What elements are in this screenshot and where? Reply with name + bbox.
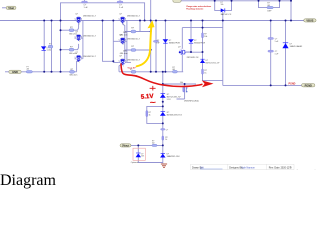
svg-text:PGND: PGND bbox=[289, 82, 296, 85]
svg-text:1k: 1k bbox=[149, 115, 151, 117]
capacitor C4 1uF (column x=270.7) bbox=[268, 38, 279, 43]
wire top net D y=0.8 bbox=[181, 0, 291, 2]
resistor R5 10k (column x=202.5) bbox=[202, 33, 208, 38]
wire vertical column x=44 bbox=[43, 21, 45, 72]
transistor Q4 (right stack top) bbox=[118, 14, 140, 26]
diode D3 SM4007 (column x=191, pointing down) bbox=[186, 20, 205, 54]
transistor Q1 (left stack top) bbox=[74, 14, 96, 26]
svg-text:Plus/charge detection: Plus/charge detection bbox=[186, 8, 203, 11]
resistor R10 0ohm (bottom row) bbox=[152, 141, 157, 147]
resistor R7 10k + sub part under red curve bbox=[180, 82, 199, 103]
svg-text:5Vout: 5Vout bbox=[122, 145, 129, 148]
net tag VBAT (top left pill) bbox=[2, 6, 16, 10]
svg-text:VBUS: VBUS bbox=[306, 20, 313, 23]
wire 2N7002 drain up and top link y=27.6 bbox=[182, 28, 223, 49]
svg-text:680 ohm: 680 ohm bbox=[70, 75, 78, 77]
wire rail A (main top horizontal net) bbox=[0, 20, 304, 22]
svg-text:DMG3415U-7: DMG3415U-7 bbox=[127, 16, 141, 18]
svg-text:1k: 1k bbox=[165, 139, 167, 141]
svg-text:Rev: Date:: Rev: Date: bbox=[269, 167, 281, 170]
wire vertical column x=165.4 (diode SM4007) bbox=[164, 21, 166, 72]
wire vertical cap column x=270.7 bbox=[270, 21, 272, 86]
wire vertical column x=156 (cap) bbox=[155, 21, 157, 72]
fuse F1 on rail2 bbox=[26, 67, 32, 73]
svg-text:1k: 1k bbox=[204, 73, 206, 75]
wire vertical column x=162.8 (5.1V zener chain down to ground) bbox=[162, 72, 164, 164]
svg-text:DMG3415U-7: DMG3415U-7 bbox=[83, 56, 97, 58]
svg-text:680 ohm: 680 ohm bbox=[69, 33, 77, 35]
net tag 5V (bottom left pill) bbox=[120, 144, 131, 148]
svg-text:Vbat: Vbat bbox=[8, 6, 14, 10]
transistor Q3 (left stack bottom) bbox=[74, 52, 96, 64]
svg-text:SM4007PLW: SM4007PLW bbox=[169, 43, 180, 45]
capacitor C5 1uF (column x=270.7) bbox=[268, 50, 279, 55]
net tag VBUS (right pill on rail A) bbox=[304, 19, 316, 23]
transistor U1 2N7002 bbox=[178, 47, 199, 59]
wire vertical to top edge at x=150.7 bbox=[150, 0, 152, 21]
svg-text:C?: C? bbox=[157, 40, 159, 42]
transistor Q5 (right stack middle) bbox=[118, 35, 140, 47]
svg-text:BAT54C-7-F: BAT54C-7-F bbox=[221, 13, 232, 16]
wire y=84 stub under red curve bbox=[163, 83, 196, 85]
svg-text:PGND: PGND bbox=[305, 84, 312, 87]
wire N3 row to column150 bbox=[127, 61, 131, 63]
svg-text:SMAZ5V1-13-F: SMAZ5V1-13-F bbox=[167, 155, 181, 158]
svg-text:R?: R? bbox=[49, 44, 51, 46]
net tag PGND (bottom right pill) bbox=[302, 84, 315, 88]
resistor R6 1k (column x=202.5) bbox=[202, 69, 207, 75]
wire BAT54 left leg bbox=[215, 1, 221, 11]
svg-text:10k: 10k bbox=[204, 36, 207, 38]
net tag (top edge, partial pill) bbox=[173, 0, 181, 2]
transistor Q6 (right stack bottom) bbox=[118, 56, 140, 68]
svg-text:DNI/DNP(stuffed): DNI/DNP(stuffed) bbox=[184, 99, 199, 102]
svg-text:SMAJ5.0AHE3: SMAJ5.0AHE3 bbox=[290, 45, 303, 48]
wire left gate row 1 bbox=[61, 23, 79, 30]
diode D8 zener BZX84 (column x=162.8) bbox=[160, 112, 183, 117]
resistor RN2 (gate, right stack) bbox=[120, 46, 136, 55]
wire left FET right-pin chain x=82.9 bbox=[82, 20, 84, 58]
yellow highlight arrow bbox=[137, 20, 155, 66]
resistor RN1 (gate, right stack) bbox=[120, 27, 136, 36]
capacitor C1 1uF (top, x=84.5) bbox=[82, 0, 89, 9]
svg-text:BZT52C5V1-7-F: BZT52C5V1-7-F bbox=[206, 62, 221, 64]
wire vertical column x=51.5 bbox=[51, 21, 53, 72]
wire rail2 right segment bbox=[119, 71, 183, 73]
resistor R11 on rail2 right segment bbox=[130, 69, 138, 77]
resistor RL1 680ohm (gate, left stack) bbox=[69, 27, 77, 35]
wire bottom-left tag row y=145.4 bbox=[131, 144, 163, 146]
svg-text:10k: 10k bbox=[221, 4, 224, 6]
wire gate tap to rail2 x=119 bbox=[119, 65, 121, 72]
diode D4 BAT54C bbox=[221, 2, 233, 16]
svg-text:DMG3415U-7: DMG3415U-7 bbox=[127, 60, 141, 62]
capacitor C6 marks (column x=164, y~129) bbox=[161, 129, 169, 132]
red freehand curve with arrow bbox=[121, 64, 214, 88]
svg-text:Kyle Nanson: Kyle Nanson bbox=[241, 167, 255, 170]
wire bottom rail to PGND tag bbox=[223, 84, 302, 86]
wire vertical x=291 top to rail A bbox=[290, 0, 292, 21]
wire small sub drop x=184.6 bbox=[177, 84, 185, 99]
wire right gate row 1 bbox=[125, 31, 151, 33]
wire vertical TVS column x=285.5 bbox=[285, 21, 287, 86]
wire vertical column x=102.5 bbox=[103, 21, 114, 62]
svg-text:Optional: Optional bbox=[131, 161, 139, 164]
diode D10 zener (column x=162.8, above ground) bbox=[160, 153, 180, 158]
svg-text:680 ohm: 680 ohm bbox=[120, 53, 128, 55]
diode D5 zener BZT52C (column x=202.5, pointing up) bbox=[200, 59, 220, 64]
svg-text:2N7002K-7-F: 2N7002K-7-F bbox=[187, 57, 200, 59]
transistor Q2 (left stack middle) bbox=[74, 31, 96, 43]
wire left stub of tag2 bbox=[5, 71, 9, 73]
wire vertical column x=60.5 bbox=[60, 21, 62, 72]
wire BAT54 common cathode drop x=222.8 bbox=[222, 12, 224, 85]
svg-text:680 ohm: 680 ohm bbox=[69, 53, 77, 55]
wire top cap loop B bbox=[61, 3, 145, 21]
wire left gate row 2 bbox=[61, 44, 79, 50]
wire right pin chain of right FET stack bbox=[126, 20, 128, 62]
wire bypass resistor loop bbox=[259, 1, 280, 8]
wire vertical column x=113.3 (left pins of right FET stack) bbox=[113, 21, 118, 63]
svg-text:10k: 10k bbox=[180, 82, 183, 84]
wire right gate rail x=124.8 bbox=[120, 22, 124, 60]
svg-text:5V1: 5V1 bbox=[141, 155, 144, 157]
wire optional zener drop bbox=[138, 145, 163, 162]
svg-text:C?: C? bbox=[166, 129, 168, 131]
svg-text:BZX84C5V1LT1G: BZX84C5V1LT1G bbox=[167, 115, 183, 117]
diode D2 SM4007 (column x=165.4, pointing down) bbox=[163, 39, 180, 44]
wire from v140 jog to v150 bbox=[140, 21, 151, 32]
svg-text:DMG3415U-7: DMG3415U-7 bbox=[83, 35, 97, 37]
red note: 5.1V with + and - marks bbox=[141, 86, 156, 103]
svg-text:Vout 5V: Vout 5V bbox=[128, 66, 137, 69]
svg-text:DMG3415U-7: DMG3415U-7 bbox=[83, 16, 97, 18]
resistor R8 1k (column x=164) bbox=[162, 136, 168, 141]
resistor R12 small blob near x=50 bbox=[48, 44, 53, 52]
wire rail2 left segment (gate drive line) bbox=[21, 62, 78, 72]
svg-text:1 uF: 1 uF bbox=[119, 7, 124, 9]
svg-text:SM4007PLW: SM4007PLW bbox=[194, 42, 205, 44]
wire 2N7002 source to rail2 bbox=[181, 55, 183, 72]
diode D6 TVS SMAJ5.0A (column x=285.5, pointing up) bbox=[282, 43, 302, 48]
svg-text:680 ohm: 680 ohm bbox=[120, 34, 128, 36]
wire vertical column x=202.5 with corner to x=222.8 bbox=[203, 21, 223, 81]
diode D9 optional zener bbox=[136, 153, 145, 157]
optional zener box (red outline) bbox=[133, 148, 145, 160]
diode D7 zener 5.1V (column x=162.8) bbox=[160, 94, 182, 101]
wire 2N7002 drain row y=52 bbox=[186, 51, 203, 53]
svg-text:5.1V: 5.1V bbox=[141, 93, 155, 101]
title block bbox=[191, 164, 295, 169]
wire BAT54 right leg bbox=[225, 1, 232, 11]
capacitor C3 on column x=156 bbox=[153, 40, 160, 45]
wire vertical column x=150.7 bbox=[150, 21, 152, 72]
svg-text:DMG3415U-7: DMG3415U-7 bbox=[127, 39, 141, 41]
resistor R 680ohm on rail2 bbox=[70, 69, 78, 77]
resistor R4 0ohm bypass (top right) bbox=[267, 3, 273, 13]
svg-text:GND: GND bbox=[12, 70, 18, 74]
svg-text:1 uF: 1 uF bbox=[84, 7, 89, 9]
net tag GND (left pill on rail2) bbox=[9, 70, 21, 74]
resistor RL2 680ohm (gate, left stack) bbox=[69, 47, 77, 55]
wire right gate row 2 bbox=[125, 49, 151, 51]
diode D1 (inline in column x=44.2, pointing down) bbox=[41, 46, 49, 51]
ground (signal ground, red-brown) bbox=[161, 164, 167, 167]
red note: charger state annotation bbox=[186, 5, 211, 11]
capacitor C2 1uF (top, x=120) bbox=[117, 0, 124, 9]
resistor R9 1k (bypass loop around D8) bbox=[146, 105, 164, 124]
resistor R3 0ohm on rail2 right bbox=[172, 67, 177, 73]
